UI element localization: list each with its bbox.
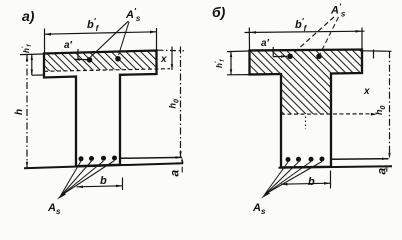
svg-text:а): а) (22, 8, 35, 24)
centerline mark b (305, 117, 307, 130)
svg-text:h: h (14, 109, 25, 115)
leader A's to right dot a (119, 22, 130, 55)
dimension h'f a (20, 53, 43, 56)
T-section outline a (44, 51, 157, 167)
dimension b b (330, 171, 332, 189)
svg-text:а: а (168, 170, 182, 177)
baseline bottom a (24, 163, 183, 168)
leader A's to left dot a (91, 21, 129, 57)
dimension h0 a (180, 47, 182, 158)
neutral axis dashed b (281, 113, 372, 115)
neutral axis dashed a (44, 69, 170, 72)
dimension h0 b (389, 51, 391, 158)
dimension x a (171, 47, 173, 71)
extension line top right a (158, 49, 185, 52)
leader A's to right dot b (320, 17, 339, 54)
bar A's right dot a (115, 56, 121, 62)
T-section outline b (250, 50, 363, 168)
baseline bottom b (279, 166, 393, 168)
dimension h'f b (227, 50, 249, 53)
extension line top right b (363, 50, 392, 53)
hatch compression zone b (T shape) (250, 50, 362, 115)
hatch compression zone a (44, 51, 157, 72)
leader A's to left dot b (292, 17, 334, 55)
svg-text:б): б) (212, 4, 226, 20)
dimension h a (26, 55, 28, 168)
As centroid line b (331, 158, 389, 161)
As centroid line a (120, 156, 182, 159)
dimension b'f a (44, 29, 46, 54)
bar A's right dot b (316, 54, 322, 60)
svg-text:x: x (363, 86, 370, 97)
bottom bars As a (79, 156, 84, 161)
dimension b'f b (248, 28, 250, 51)
svg-text:x: x (160, 54, 167, 65)
svg-text:b: b (308, 176, 315, 188)
dimension b a (122, 178, 124, 191)
svg-text:а′: а′ (64, 40, 73, 51)
bar A's left dot a (87, 57, 93, 63)
svg-text:а′: а′ (261, 38, 270, 49)
dimension a (right bottom) a (181, 158, 183, 162)
bottom bars As b (286, 157, 291, 162)
dimension x b (tick and bottom arrow on neutral line) (373, 50, 375, 59)
svg-text:b: b (100, 175, 107, 187)
bar A's left dot b (287, 54, 293, 60)
